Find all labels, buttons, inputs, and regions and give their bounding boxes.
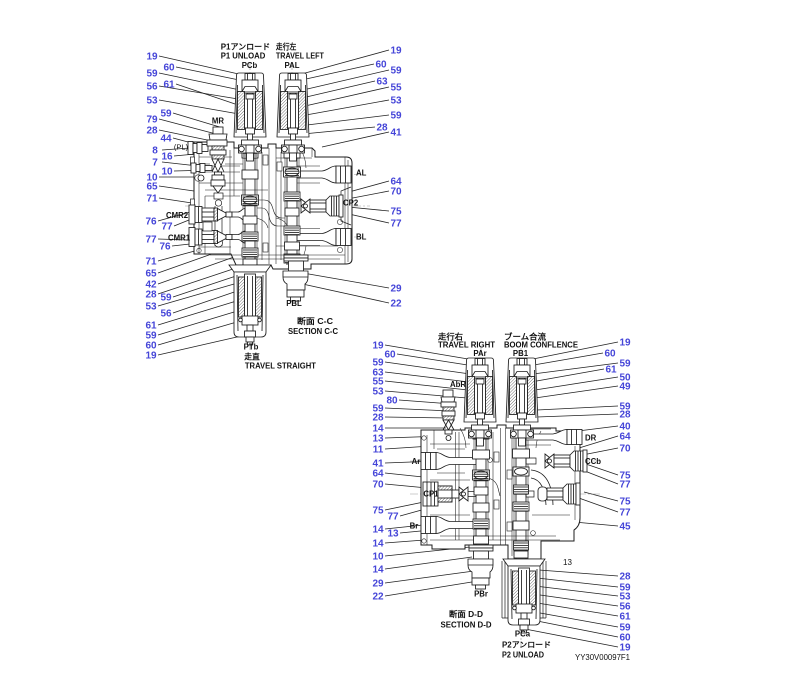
centerline CMR1 xyxy=(178,236,255,238)
svg-text:70: 70 xyxy=(390,187,402,198)
centerline CP2 xyxy=(185,205,370,207)
valve cartridge PAr xyxy=(464,358,496,446)
spool PCb lower xyxy=(242,148,259,265)
svg-text:41: 41 xyxy=(390,128,402,139)
svg-text:28: 28 xyxy=(619,572,631,583)
svg-text:13: 13 xyxy=(563,558,572,567)
svg-text:60: 60 xyxy=(384,350,396,361)
svg-text:59: 59 xyxy=(390,66,402,77)
cartridge CP1 xyxy=(423,482,468,506)
valve cartridge PTb line xyxy=(229,265,271,345)
svg-text:56: 56 xyxy=(146,82,158,93)
valve cartridge PCb xyxy=(234,73,266,161)
svg-text:13: 13 xyxy=(387,529,399,540)
leader lines C-C right xyxy=(297,50,389,303)
svg-text:19: 19 xyxy=(145,351,157,362)
svg-text:59: 59 xyxy=(390,111,402,122)
svg-text:14: 14 xyxy=(372,565,384,576)
funnel CMR1-spool xyxy=(232,231,245,243)
svg-text:77: 77 xyxy=(145,235,157,246)
svg-text:45: 45 xyxy=(619,522,631,533)
svg-text:77: 77 xyxy=(161,222,173,233)
svg-text:CMR1: CMR1 xyxy=(168,234,191,243)
svg-text:70: 70 xyxy=(372,480,384,491)
recess between AL and BL xyxy=(341,187,351,225)
valve body D-D xyxy=(421,425,580,559)
callout numbers C-C right xyxy=(375,46,402,310)
svg-text:(PL): (PL) xyxy=(174,143,189,152)
valve cartridge PCa line xyxy=(503,559,545,633)
svg-text:65: 65 xyxy=(146,182,158,193)
channel CP1-spool xyxy=(465,492,476,497)
svg-text:61: 61 xyxy=(605,365,617,376)
svg-text:77: 77 xyxy=(619,508,631,519)
centerline PB1 spool xyxy=(520,348,522,648)
fitting PBL xyxy=(283,255,308,301)
left edge tabs xyxy=(191,157,195,235)
svg-text:29: 29 xyxy=(372,579,384,590)
leader lines D-D right xyxy=(525,342,618,647)
port BL xyxy=(297,229,351,246)
svg-text:61: 61 xyxy=(163,80,175,91)
callout numbers D-D left xyxy=(372,341,399,603)
svg-text:60: 60 xyxy=(163,63,175,74)
partition lines D-D xyxy=(427,428,575,556)
svg-text:走行左: 走行左 xyxy=(275,42,296,52)
svg-text:75: 75 xyxy=(372,506,384,517)
svg-text:10: 10 xyxy=(372,552,384,563)
svg-text:49: 49 xyxy=(619,382,631,393)
callout numbers C-C left xyxy=(145,52,175,362)
svg-text:PTb: PTb xyxy=(244,343,259,352)
spool PAL lower xyxy=(284,148,301,265)
svg-text:55: 55 xyxy=(390,83,402,94)
svg-text:28: 28 xyxy=(145,290,157,301)
svg-text:Br: Br xyxy=(410,522,419,531)
svg-text:76: 76 xyxy=(145,217,157,228)
callout numbers D-D right xyxy=(604,338,631,654)
svg-text:Ar: Ar xyxy=(412,457,421,466)
svg-text:PAL: PAL xyxy=(284,61,299,70)
svg-text:PB1: PB1 xyxy=(513,349,529,358)
upper-left ledges xyxy=(199,157,243,183)
port Br xyxy=(421,517,476,534)
svg-text:22: 22 xyxy=(390,299,402,310)
svg-text:53: 53 xyxy=(372,387,384,398)
valve cartridge PAL xyxy=(277,73,309,161)
svg-text:64: 64 xyxy=(619,432,631,443)
svg-text:PBr: PBr xyxy=(474,590,488,599)
cartridge CCb xyxy=(545,450,587,472)
svg-text:断面 D-D: 断面 D-D xyxy=(449,609,483,619)
svg-text:63: 63 xyxy=(376,77,388,88)
centerline PCb spool xyxy=(249,62,251,352)
PCa pocket walls xyxy=(502,561,546,618)
svg-text:59: 59 xyxy=(146,69,158,80)
svg-text:56: 56 xyxy=(160,309,172,320)
svg-text:28: 28 xyxy=(372,413,384,424)
svg-text:CCb: CCb xyxy=(585,457,601,466)
svg-text:CP1: CP1 xyxy=(423,490,439,499)
cartridge relief right xyxy=(538,483,580,505)
svg-text:77: 77 xyxy=(387,512,399,523)
svg-text:60: 60 xyxy=(604,349,616,360)
svg-text:53: 53 xyxy=(390,96,402,107)
svg-text:TRAVEL LEFT: TRAVEL LEFT xyxy=(276,52,324,61)
svg-text:22: 22 xyxy=(372,592,384,603)
passage lines D-D xyxy=(430,449,560,540)
svg-text:77: 77 xyxy=(619,480,631,491)
svg-text:75: 75 xyxy=(390,207,402,218)
svg-text:14: 14 xyxy=(372,525,384,536)
svg-text:79: 79 xyxy=(146,115,158,126)
fitting (PL) xyxy=(188,142,208,155)
svg-text:71: 71 xyxy=(146,194,158,205)
svg-text:59: 59 xyxy=(160,109,172,120)
svg-text:8: 8 xyxy=(152,146,158,157)
svg-text:BL: BL xyxy=(356,233,367,242)
svg-text:SECTION D-D: SECTION D-D xyxy=(441,621,492,630)
cartridge CMR1 xyxy=(189,228,232,247)
relief valve MR xyxy=(207,127,227,193)
leader lines D-D left xyxy=(385,345,478,596)
svg-text:P2 UNLOAD: P2 UNLOAD xyxy=(502,651,544,660)
between-spool passages D-D xyxy=(488,452,512,531)
svg-text:19: 19 xyxy=(619,338,631,349)
cartridge CMR2 xyxy=(189,205,232,224)
svg-text:P2アンロード: P2アンロード xyxy=(502,641,551,650)
svg-text:AbR: AbR xyxy=(450,380,466,389)
svg-text:断面 C-C: 断面 C-C xyxy=(297,316,333,326)
fitting PBr xyxy=(468,545,493,589)
svg-text:MR: MR xyxy=(212,117,224,126)
svg-text:29: 29 xyxy=(390,284,402,295)
centerline PAL spool xyxy=(291,62,293,300)
svg-text:19: 19 xyxy=(619,643,631,654)
partition lines C-C xyxy=(199,142,348,264)
svg-text:14: 14 xyxy=(372,539,384,550)
svg-text:28: 28 xyxy=(146,126,158,137)
port Ar xyxy=(421,453,476,470)
svg-text:16: 16 xyxy=(161,152,173,163)
centerline BL xyxy=(228,236,362,238)
svg-text:75: 75 xyxy=(619,497,631,508)
MR lower column xyxy=(214,193,223,247)
centerline PAr spool xyxy=(480,348,482,600)
svg-text:77: 77 xyxy=(390,219,402,230)
valve cartridge PB1 xyxy=(506,358,538,446)
svg-text:80: 80 xyxy=(386,396,398,407)
between-spool passages C-C xyxy=(257,155,285,252)
svg-text:PBL: PBL xyxy=(286,299,302,308)
svg-text:64: 64 xyxy=(372,469,384,480)
centerline CMR2 xyxy=(178,214,255,216)
svg-text:44: 44 xyxy=(160,134,172,145)
svg-text:59: 59 xyxy=(619,359,631,370)
svg-text:53: 53 xyxy=(146,96,158,107)
channel spool-relief xyxy=(526,491,534,497)
svg-text:59: 59 xyxy=(160,293,172,304)
port DR xyxy=(526,429,582,445)
svg-text:PCb: PCb xyxy=(242,61,258,70)
svg-text:CMR2: CMR2 xyxy=(166,211,189,220)
svg-text:11: 11 xyxy=(373,445,384,456)
svg-text:SECTION C-C: SECTION C-C xyxy=(288,327,338,336)
svg-text:P1 UNLOAD: P1 UNLOAD xyxy=(221,52,266,61)
svg-text:PCa: PCa xyxy=(515,630,531,639)
centerline AL xyxy=(228,174,362,176)
svg-text:70: 70 xyxy=(619,444,631,455)
funnel CMR2-spool xyxy=(232,209,245,221)
svg-text:19: 19 xyxy=(390,46,402,57)
svg-text:TRAVEL STRAIGHT: TRAVEL STRAIGHT xyxy=(245,362,316,371)
pilot fitting lower xyxy=(191,163,212,181)
block between CMR xyxy=(203,222,212,231)
svg-text:19: 19 xyxy=(372,341,384,352)
spool PAr lower xyxy=(473,428,490,559)
svg-text:CP2: CP2 xyxy=(343,199,359,208)
valve body C-C xyxy=(194,142,352,269)
svg-text:61: 61 xyxy=(619,612,631,623)
svg-text:13: 13 xyxy=(372,434,384,445)
svg-text:走直: 走直 xyxy=(243,352,260,362)
svg-text:AL: AL xyxy=(356,169,367,178)
centerline CP1 row xyxy=(410,493,600,495)
svg-text:60: 60 xyxy=(375,60,387,71)
svg-text:53: 53 xyxy=(145,302,157,313)
centerline Ar-CCb xyxy=(410,460,600,462)
svg-text:76: 76 xyxy=(159,242,171,253)
valve AbR xyxy=(441,390,456,441)
centerline Br xyxy=(410,524,475,526)
svg-text:DR: DR xyxy=(585,434,597,443)
cartridge CP2 xyxy=(301,195,343,217)
spool PB1 lower xyxy=(513,428,530,559)
channel spool-CCb xyxy=(526,458,536,464)
leader lines C-C left xyxy=(158,56,250,355)
svg-text:71: 71 xyxy=(145,257,157,268)
passage lines C-C xyxy=(195,148,345,264)
svg-text:7: 7 xyxy=(152,158,158,169)
svg-text:28: 28 xyxy=(376,123,388,134)
svg-text:65: 65 xyxy=(145,269,157,280)
svg-text:10: 10 xyxy=(161,167,173,178)
svg-text:PAr: PAr xyxy=(473,349,486,358)
svg-text:28: 28 xyxy=(619,410,631,421)
svg-text:P1アンロード: P1アンロード xyxy=(221,43,271,52)
svg-text:YY30V00097F1: YY30V00097F1 xyxy=(575,653,630,662)
port AL xyxy=(297,166,351,183)
svg-text:19: 19 xyxy=(146,52,158,63)
